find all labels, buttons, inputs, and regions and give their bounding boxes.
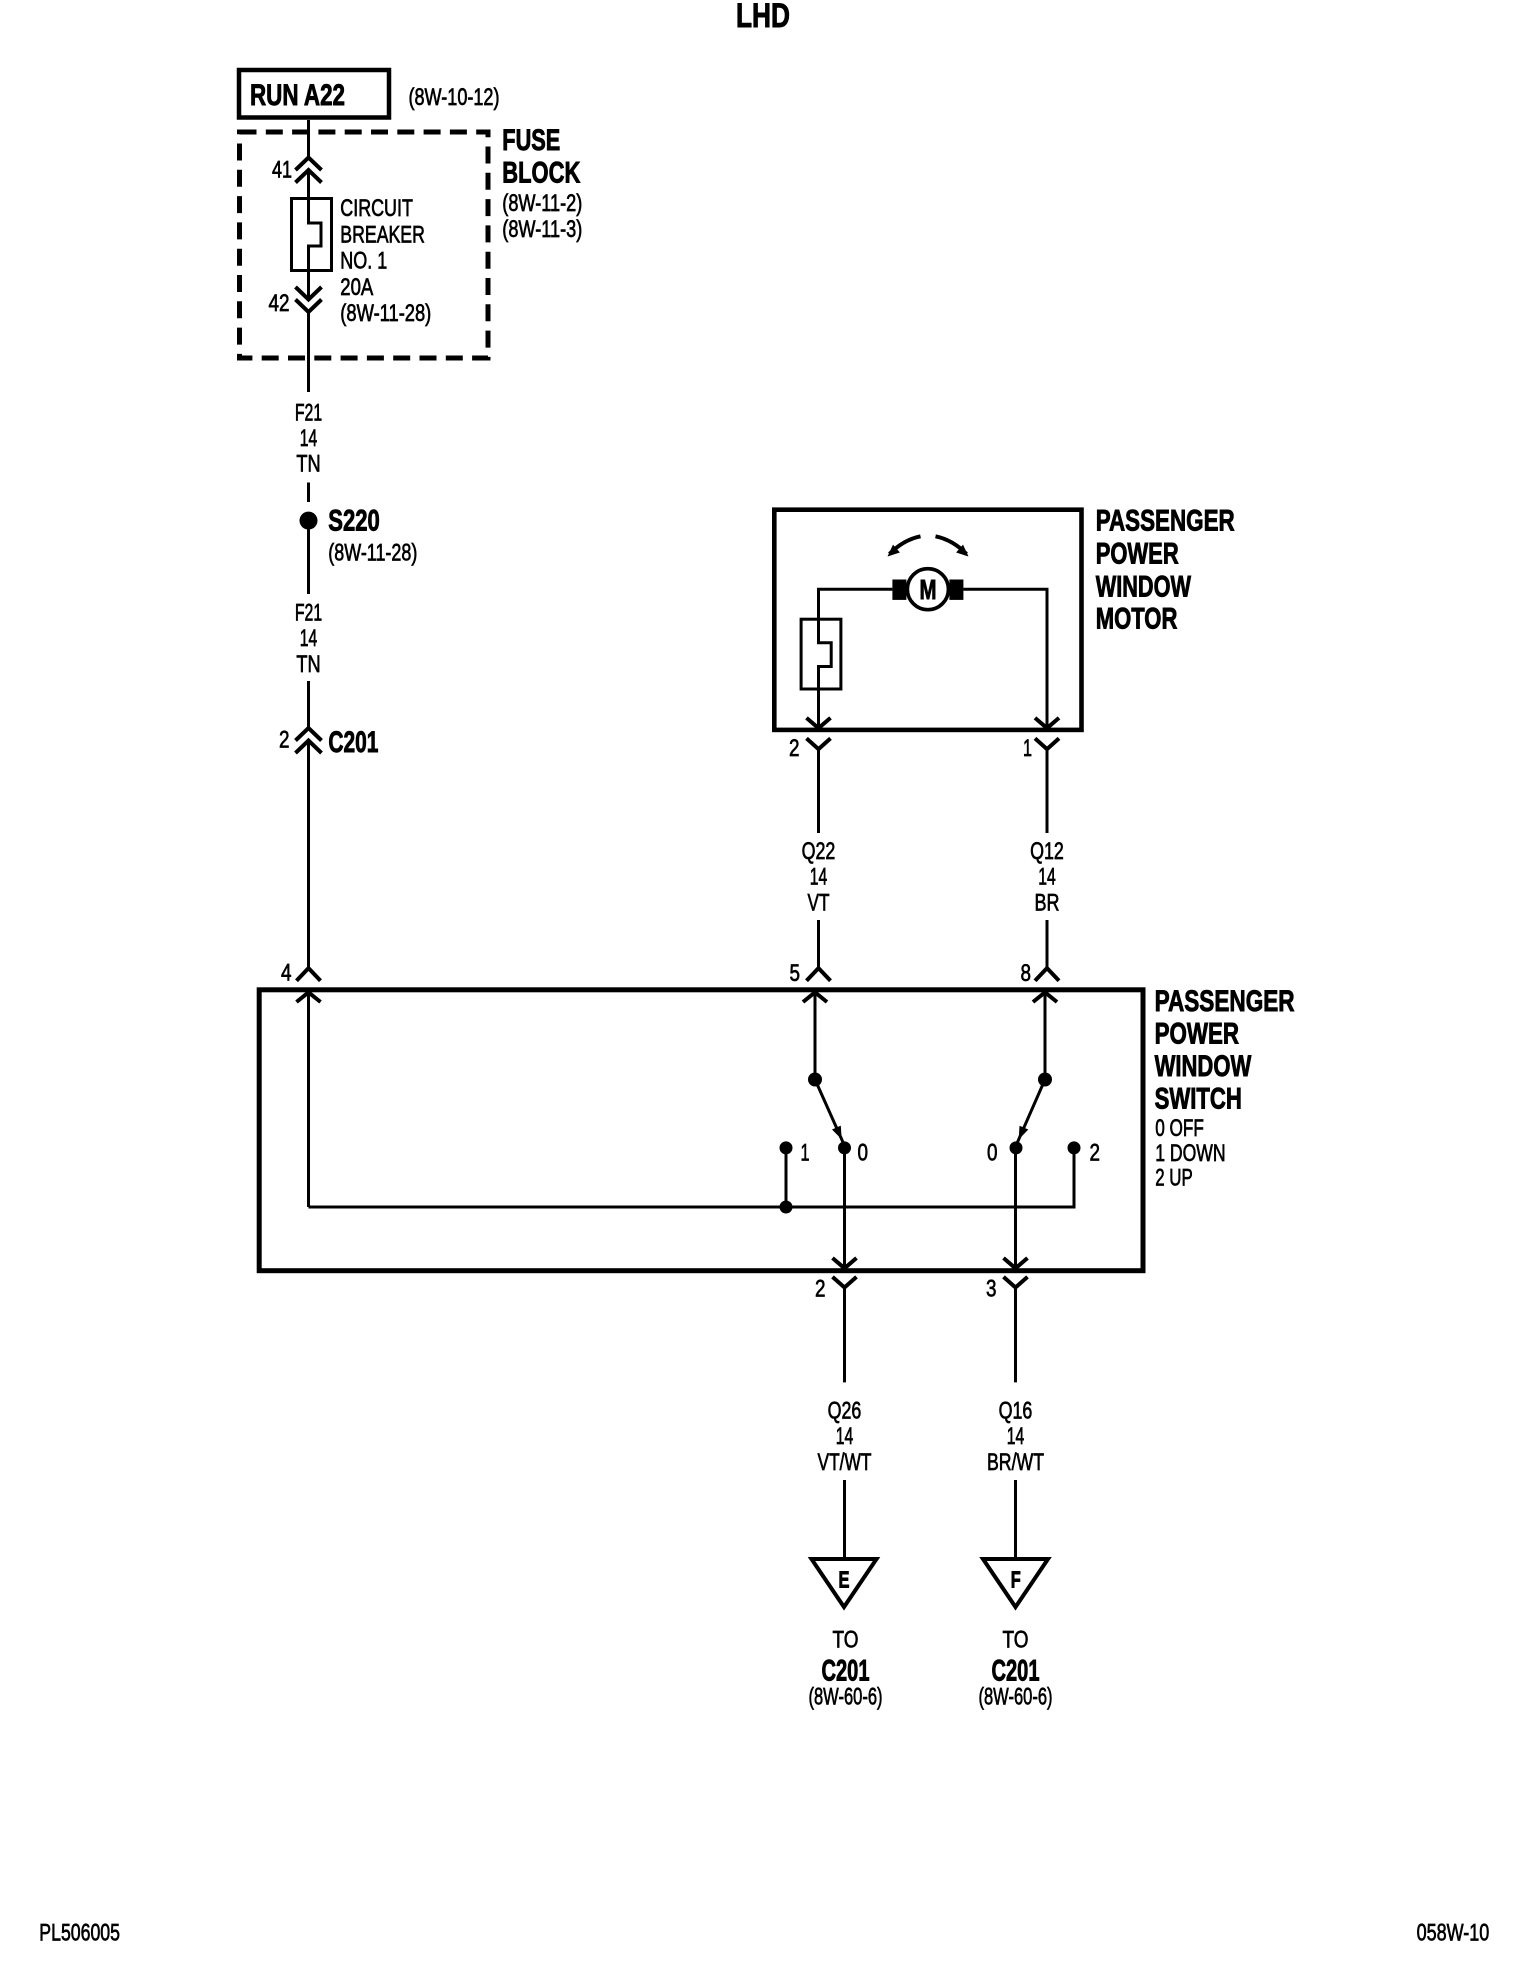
pin 5 arrow inside switch and wire to pivot (803, 992, 827, 1073)
svg-text:(8W-11-2): (8W-11-2) (502, 190, 582, 217)
connector pin 2 female half (motor) (807, 738, 831, 749)
svg-text:F21: F21 (295, 399, 322, 426)
svg-text:F: F (1011, 1567, 1021, 1593)
svg-text:BLOCK: BLOCK (502, 156, 580, 189)
svg-text:C201: C201 (328, 726, 378, 759)
label FUSE BLOCK (8W-11-2) (8W-11-3) (502, 124, 582, 243)
svg-text:Q26: Q26 (828, 1397, 862, 1424)
contact 0 left dot (838, 1141, 851, 1154)
connector pin 2 female half (switch bottom) (833, 1277, 857, 1288)
contact 0 right dot (1010, 1141, 1023, 1154)
svg-text:VT/WT: VT/WT (818, 1449, 872, 1476)
splice S220 junction dot (300, 512, 318, 530)
svg-text:4: 4 (281, 960, 292, 987)
svg-text:F21: F21 (295, 600, 322, 627)
svg-text:(8W-60-6): (8W-60-6) (979, 1684, 1053, 1711)
wire label Q26 14 VT/WT (818, 1397, 872, 1476)
switch arm right with pivot (1017, 1073, 1053, 1145)
svg-text:(8W-60-6): (8W-60-6) (809, 1684, 883, 1711)
connector pin 42 double chevron (296, 287, 322, 312)
svg-text:1 DOWN: 1 DOWN (1155, 1140, 1225, 1167)
off-page connector E triangle (812, 1559, 877, 1607)
wire Q16 upper segment (1014, 1288, 1017, 1383)
contact 2 label (1090, 1140, 1101, 1167)
connector pin 5 female half (807, 968, 831, 981)
svg-text:BR/WT: BR/WT (987, 1449, 1044, 1476)
motor rotation arrows (888, 536, 969, 556)
pin 2 label at C201 (279, 727, 290, 754)
fuse block dashed outline (240, 132, 489, 358)
svg-text:E: E (839, 1567, 850, 1593)
label S220 (8W-11-28) (328, 505, 417, 567)
svg-text:14: 14 (300, 625, 318, 652)
wire motor right branch to pin 1 with arrow (963, 589, 1059, 728)
svg-text:2: 2 (1090, 1140, 1101, 1167)
title LHD (736, 0, 790, 35)
svg-text:2: 2 (279, 727, 290, 754)
motor circuit breaker (801, 619, 841, 689)
svg-text:41: 41 (272, 157, 292, 184)
wire Q12 lower segment (1046, 920, 1049, 968)
wire pin 42 to label F21 (307, 312, 310, 392)
svg-text:Q12: Q12 (1030, 838, 1064, 865)
wire C201 to switch pin 4 (307, 741, 310, 969)
svg-text:PASSENGER: PASSENGER (1155, 985, 1295, 1018)
label PASSENGER POWER WINDOW SWITCH (1155, 985, 1295, 1115)
contact 1 label (801, 1139, 810, 1166)
connector pin 4 female half (297, 968, 321, 981)
contact 2 dot and stem to bus (1068, 1141, 1081, 1207)
wire F21 to splice S220 (307, 483, 310, 503)
pin 42 label (269, 290, 290, 317)
pin 41 label (272, 157, 292, 184)
svg-text:TO: TO (833, 1627, 859, 1654)
contact 0 left label (858, 1140, 869, 1167)
label TO C201 (8W-60-6) right (979, 1627, 1053, 1711)
svg-text:14: 14 (836, 1423, 854, 1450)
svg-text:NO. 1: NO. 1 (340, 248, 387, 275)
wire circuit breaker to pin 42 (307, 271, 310, 301)
wire label Q12 14 BR (1030, 838, 1064, 917)
wire Q26 upper segment (843, 1288, 846, 1383)
svg-text:MOTOR: MOTOR (1096, 603, 1178, 636)
svg-text:S220: S220 (328, 505, 380, 538)
svg-text:8: 8 (1021, 960, 1032, 987)
svg-text:LHD: LHD (736, 0, 790, 35)
svg-text:WINDOW: WINDOW (1155, 1050, 1252, 1083)
svg-text:(8W-11-28): (8W-11-28) (340, 300, 431, 327)
pin 4 label (281, 960, 292, 987)
pin 8 label (1021, 960, 1032, 987)
svg-text:BR: BR (1035, 889, 1060, 916)
svg-text:14: 14 (810, 864, 828, 891)
wire S220 to label F21 lower (307, 530, 310, 595)
svg-text:5: 5 (790, 960, 801, 987)
svg-text:20A: 20A (340, 274, 373, 301)
switch arm left with pivot (808, 1073, 844, 1145)
svg-text:2: 2 (789, 735, 800, 762)
svg-text:Q16: Q16 (999, 1397, 1033, 1424)
label CIRCUIT BREAKER NO. 1 20A (8W-11-28) (340, 195, 431, 327)
svg-text:(8W-11-3): (8W-11-3) (502, 216, 582, 243)
bus wire inside switch (309, 1148, 1075, 1207)
connector pin 1 female half (motor) (1035, 738, 1059, 749)
svg-text:14: 14 (1007, 1423, 1025, 1450)
pin 5 label (790, 960, 801, 987)
wire contact 0 left to pin 2 with arrow (833, 1148, 857, 1268)
motor box outline (774, 510, 1081, 730)
wire Q12 upper segment (1046, 749, 1049, 833)
svg-text:0: 0 (858, 1140, 869, 1167)
contact 1 dot and stem (780, 1141, 793, 1207)
pin 2 label (motor) (789, 735, 800, 762)
svg-text:RUN A22: RUN A22 (250, 79, 345, 112)
wire label F21 14 TN (upper) (295, 399, 322, 477)
svg-text:(8W-11-28): (8W-11-28) (328, 540, 417, 567)
wire RUN A22 box to pin 41 (307, 120, 310, 159)
connector C201 double chevron (296, 728, 322, 753)
svg-text:14: 14 (1038, 864, 1056, 891)
pin 1 label (motor) (1023, 735, 1032, 762)
wire contact 0 right to pin 3 with arrow (1004, 1148, 1028, 1268)
svg-text:TN: TN (296, 451, 320, 478)
wire motor left branch (819, 589, 893, 619)
svg-text:TN: TN (296, 651, 320, 678)
wire pin 41 to circuit breaker (307, 170, 310, 200)
svg-text:1: 1 (801, 1139, 810, 1166)
svg-text:CIRCUIT: CIRCUIT (340, 195, 413, 222)
wire label Q22 14 VT (802, 838, 836, 917)
svg-text:2 UP: 2 UP (1155, 1164, 1193, 1191)
label TO C201 (8W-60-6) left (809, 1627, 883, 1711)
wire Q26 lower segment (843, 1480, 846, 1561)
svg-text:FUSE: FUSE (502, 124, 560, 157)
svg-text:14: 14 (300, 425, 318, 452)
off-page connector F triangle (983, 1559, 1048, 1607)
svg-text:WINDOW: WINDOW (1096, 571, 1192, 604)
footer drawing number 058W-10 (1417, 1920, 1490, 1947)
contact 0 right label (987, 1140, 998, 1167)
connector pin 8 female half (1035, 968, 1059, 981)
connector pin 41 double chevron (296, 158, 322, 183)
label switch positions 0 OFF 1 DOWN 2 UP (1155, 1115, 1225, 1191)
wire TN to connector C201 (307, 681, 310, 729)
svg-text:PL506005: PL506005 (39, 1920, 120, 1947)
connector pin 3 female half (switch bottom) (1004, 1277, 1028, 1288)
wire Q16 lower segment (1014, 1480, 1017, 1561)
junction dot on bus (780, 1201, 793, 1214)
node RUN A22 feed box (239, 70, 389, 118)
switch box outline (259, 990, 1143, 1271)
pin 8 arrow inside switch and wire to pivot (1033, 992, 1057, 1073)
label RUN A22 (250, 79, 345, 112)
wire label F21 14 TN (lower) (295, 600, 322, 678)
wire breaker to motor pin 2 with arrow (807, 689, 831, 728)
circuit breaker No. 1 body (292, 199, 332, 271)
svg-text:M: M (920, 574, 937, 605)
svg-text:0 OFF: 0 OFF (1155, 1115, 1204, 1142)
svg-text:TO: TO (1003, 1627, 1029, 1654)
svg-text:VT: VT (808, 889, 830, 916)
svg-text:1: 1 (1023, 735, 1032, 762)
svg-text:Q22: Q22 (802, 838, 836, 865)
wire Q22 lower segment (817, 920, 820, 968)
svg-text:POWER: POWER (1155, 1018, 1240, 1051)
wire label Q16 14 BR/WT (987, 1397, 1044, 1476)
reference label (8W-10-12) (409, 84, 500, 111)
motor M symbol (892, 569, 963, 610)
svg-text:POWER: POWER (1096, 538, 1179, 571)
svg-text:3: 3 (986, 1276, 997, 1303)
footer sheet number PL506005 (39, 1920, 120, 1947)
svg-text:BREAKER: BREAKER (340, 221, 425, 248)
svg-text:PASSENGER: PASSENGER (1096, 505, 1235, 538)
pin 3 label (switch bottom) (986, 1276, 997, 1303)
svg-text:2: 2 (815, 1276, 826, 1303)
pin 2 label (switch bottom) (815, 1276, 826, 1303)
svg-text:058W-10: 058W-10 (1417, 1920, 1490, 1947)
wire Q22 upper segment (817, 749, 820, 833)
svg-text:0: 0 (987, 1140, 998, 1167)
svg-text:SWITCH: SWITCH (1155, 1082, 1242, 1115)
svg-text:(8W-10-12): (8W-10-12) (409, 84, 500, 111)
label PASSENGER POWER WINDOW MOTOR (1096, 505, 1235, 636)
svg-text:42: 42 (269, 290, 290, 317)
label C201 (328, 726, 378, 759)
pin 4 arrow inside switch and wire to bus (297, 992, 321, 1207)
